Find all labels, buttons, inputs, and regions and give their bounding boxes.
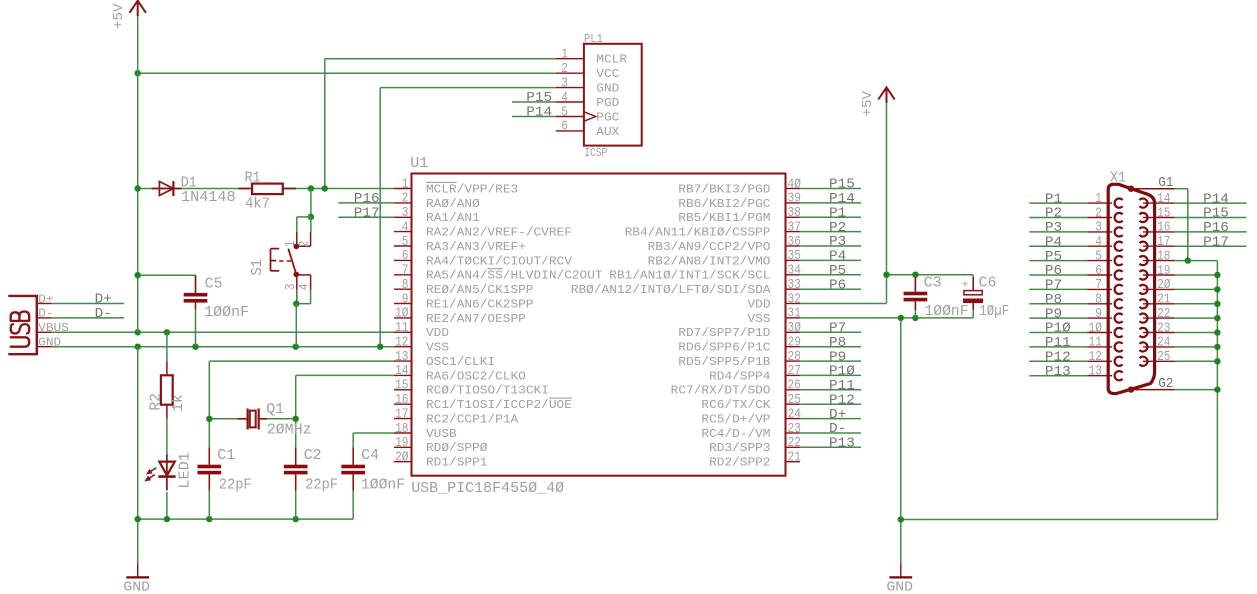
svg-text:9: 9: [402, 292, 409, 307]
svg-text:3: 3: [402, 206, 409, 221]
svg-text:37: 37: [788, 220, 801, 235]
svg-text:2: 2: [1095, 206, 1102, 221]
svg-text:2: 2: [561, 62, 568, 77]
svg-text:26: 26: [788, 379, 801, 394]
svg-text:R2: R2: [148, 393, 165, 411]
svg-text:22: 22: [1157, 307, 1170, 322]
svg-text:2Ø: 2Ø: [1157, 278, 1170, 293]
svg-text:RC6/TX/CK: RC6/TX/CK: [701, 399, 770, 412]
svg-text:12: 12: [395, 336, 408, 351]
svg-text:R1: R1: [245, 169, 261, 186]
svg-text:7: 7: [1095, 278, 1102, 293]
svg-text:VBUS: VBUS: [38, 322, 69, 335]
svg-text:1: 1: [561, 48, 568, 63]
svg-text:21: 21: [1157, 293, 1170, 308]
svg-text:5: 5: [1095, 249, 1102, 264]
svg-text:25: 25: [1157, 350, 1170, 365]
svg-text:33: 33: [788, 278, 801, 293]
svg-text:GND: GND: [123, 580, 150, 594]
svg-text:4: 4: [402, 220, 409, 235]
svg-text:GND: GND: [38, 337, 61, 350]
svg-text:1ØØnF: 1ØØnF: [361, 477, 405, 494]
svg-text:32: 32: [788, 292, 801, 307]
svg-text:6: 6: [1095, 264, 1102, 279]
svg-text:RC5/D+/VP: RC5/D+/VP: [701, 414, 770, 427]
svg-text:RCØ/TIOSO/T13CKI: RCØ/TIOSO/T13CKI: [426, 385, 549, 398]
svg-text:4: 4: [297, 284, 312, 291]
svg-text:VSS: VSS: [748, 313, 771, 326]
svg-text:RB3/AN9/CCP2/VPO: RB3/AN9/CCP2/VPO: [648, 241, 771, 254]
svg-text:15: 15: [395, 379, 408, 394]
svg-text:C4: C4: [361, 447, 379, 464]
svg-text:9: 9: [1095, 307, 1102, 322]
svg-text:18: 18: [1157, 249, 1170, 264]
svg-text:27: 27: [788, 364, 801, 379]
svg-text:VCC: VCC: [596, 68, 619, 81]
svg-text:RC7/RX/DT/SDO: RC7/RX/DT/SDO: [671, 385, 771, 398]
svg-text:RB1/AN1Ø/INT1/SCK/SCL: RB1/AN1Ø/INT1/SCK/SCL: [609, 270, 770, 283]
svg-text:RAØ/ANØ: RAØ/ANØ: [426, 198, 480, 211]
svg-text:RBØ/AN12/INTØ/LFTØ/SDI/SDA: RBØ/AN12/INTØ/LFTØ/SDI/SDA: [571, 284, 771, 297]
svg-text:16: 16: [1157, 221, 1170, 236]
svg-text:RA5/AN4/SS/HLVDIN/C2OUT: RA5/AN4/SS/HLVDIN/C2OUT: [426, 270, 603, 283]
svg-text:1N4148: 1N4148: [181, 189, 236, 206]
svg-text:RA2/AN2/VREF-/CVREF: RA2/AN2/VREF-/CVREF: [426, 227, 572, 240]
svg-text:P14: P14: [526, 105, 552, 121]
svg-text:RB4/AN11/KBIØ/CSSPP: RB4/AN11/KBIØ/CSSPP: [625, 227, 771, 240]
svg-text:RD4/SPP4: RD4/SPP4: [709, 370, 770, 383]
svg-text:1: 1: [1095, 192, 1102, 207]
svg-text:1: 1: [402, 177, 409, 192]
svg-text:OSC1/CLKI: OSC1/CLKI: [426, 356, 495, 369]
svg-text:RD7/SPP7/P1D: RD7/SPP7/P1D: [678, 327, 770, 340]
svg-text:4Ø: 4Ø: [788, 177, 801, 192]
svg-text:C2: C2: [304, 447, 322, 464]
svg-text:P13: P13: [829, 436, 855, 452]
svg-text:D+: D+: [38, 293, 53, 306]
svg-text:VDD: VDD: [426, 327, 449, 340]
svg-text:35: 35: [788, 249, 801, 264]
svg-text:5: 5: [402, 235, 409, 250]
svg-text:1ØµF: 1ØµF: [979, 303, 1009, 320]
svg-text:RB2/AN8/INT2/VMO: RB2/AN8/INT2/VMO: [648, 255, 771, 268]
svg-text:11: 11: [395, 321, 408, 336]
svg-text:LED1: LED1: [176, 452, 193, 488]
svg-text:RDØ/SPPØ: RDØ/SPPØ: [426, 442, 487, 455]
svg-text:ICSP: ICSP: [584, 147, 607, 160]
svg-text:3: 3: [561, 76, 568, 91]
svg-text:RB6/KBI2/PGC: RB6/KBI2/PGC: [678, 198, 770, 211]
svg-text:17: 17: [1157, 235, 1170, 250]
svg-text:P17: P17: [354, 206, 380, 222]
svg-text:28: 28: [788, 350, 801, 365]
svg-text:24: 24: [1157, 336, 1170, 351]
svg-text:36: 36: [788, 235, 801, 250]
svg-text:17: 17: [395, 407, 408, 422]
svg-text:U1: U1: [410, 155, 428, 172]
svg-text:RA3/AN3/VREF+: RA3/AN3/VREF+: [426, 241, 526, 254]
svg-text:1k: 1k: [170, 394, 187, 412]
svg-text:AUX: AUX: [596, 126, 619, 139]
svg-text:C3: C3: [924, 275, 942, 292]
svg-text:1Ø: 1Ø: [1089, 321, 1102, 336]
svg-text:19: 19: [1157, 264, 1170, 279]
svg-text:29: 29: [788, 336, 801, 351]
svg-text:11: 11: [1089, 336, 1102, 351]
svg-text:4: 4: [1095, 235, 1102, 250]
svg-text:39: 39: [788, 192, 801, 207]
svg-text:RD3/SPP3: RD3/SPP3: [709, 442, 770, 455]
svg-text:18: 18: [395, 422, 408, 437]
svg-text:PGD: PGD: [596, 97, 619, 110]
svg-text:14: 14: [1157, 192, 1170, 207]
svg-text:5: 5: [561, 105, 568, 120]
svg-text:8: 8: [1095, 293, 1102, 308]
svg-text:RC4/D-/VM: RC4/D-/VM: [701, 428, 770, 441]
svg-text:C1: C1: [217, 447, 235, 464]
svg-text:14: 14: [395, 364, 408, 379]
svg-text:RD5/SPP5/P1B: RD5/SPP5/P1B: [678, 356, 770, 369]
svg-text:GND: GND: [596, 83, 619, 96]
svg-text:P6: P6: [829, 277, 846, 293]
svg-text:P17: P17: [1203, 234, 1229, 250]
svg-text:3: 3: [1095, 221, 1102, 236]
svg-text:RB5/KBI1/PGM: RB5/KBI1/PGM: [678, 212, 770, 225]
svg-text:2Ø: 2Ø: [395, 451, 408, 466]
svg-text:13: 13: [395, 350, 408, 365]
svg-text:22: 22: [788, 436, 801, 451]
svg-text:34: 34: [788, 264, 801, 279]
svg-text:6: 6: [402, 249, 409, 264]
svg-text:23: 23: [788, 422, 801, 437]
svg-text:RA4/TØCKI/CIOUT/RCV: RA4/TØCKI/CIOUT/RCV: [426, 255, 572, 268]
svg-text:MCLR: MCLR: [596, 54, 627, 67]
svg-text:8: 8: [402, 278, 409, 293]
svg-text:RA1/AN1: RA1/AN1: [426, 212, 480, 225]
svg-text:VSS: VSS: [426, 342, 449, 355]
svg-text:13: 13: [1089, 365, 1102, 380]
svg-text:+5V: +5V: [111, 3, 127, 29]
svg-text:3Ø: 3Ø: [788, 321, 801, 336]
svg-text:RD1/SPP1: RD1/SPP1: [426, 457, 487, 470]
svg-text:23: 23: [1157, 321, 1170, 336]
svg-text:1Ø: 1Ø: [395, 307, 408, 322]
svg-text:1ØØnF: 1ØØnF: [925, 303, 969, 320]
svg-text:12: 12: [1089, 350, 1102, 365]
svg-text:RC1/T1OSI/ICCP2/UOE: RC1/T1OSI/ICCP2/UOE: [426, 399, 572, 412]
svg-text:2: 2: [402, 192, 409, 207]
svg-text:15: 15: [1157, 206, 1170, 221]
svg-text:RC2/CCP1/P1A: RC2/CCP1/P1A: [426, 414, 518, 427]
svg-text:X1: X1: [1110, 169, 1126, 186]
svg-text:RE2/AN7/OESPP: RE2/AN7/OESPP: [426, 313, 526, 326]
svg-text:2ØMHz: 2ØMHz: [267, 422, 312, 439]
svg-text:USB_PIC18F455Ø_4Ø: USB_PIC18F455Ø_4Ø: [411, 480, 564, 497]
svg-text:RD2/SPP2: RD2/SPP2: [709, 457, 770, 470]
svg-text:2: 2: [297, 241, 312, 248]
svg-text:MCLR/VPP/RE3: MCLR/VPP/RE3: [426, 183, 518, 196]
svg-text:24: 24: [788, 407, 801, 422]
svg-text:REØ/AN5/CK1SPP: REØ/AN5/CK1SPP: [426, 284, 534, 297]
svg-text:6: 6: [561, 120, 568, 135]
svg-text:C5: C5: [205, 276, 223, 293]
svg-text:RE1/AN6/CK2SPP: RE1/AN6/CK2SPP: [426, 298, 534, 311]
svg-text:+: +: [962, 280, 969, 292]
svg-text:16: 16: [395, 393, 408, 408]
svg-text:S1: S1: [249, 259, 266, 276]
svg-text:RD6/SPP6/P1C: RD6/SPP6/P1C: [678, 342, 770, 355]
svg-text:22pF: 22pF: [305, 477, 338, 494]
svg-text:PGC: PGC: [596, 111, 619, 124]
svg-text:RB7/BKI3/PGD: RB7/BKI3/PGD: [678, 183, 770, 196]
svg-text:PL1: PL1: [584, 33, 603, 46]
svg-text:31: 31: [788, 307, 801, 322]
svg-text:G1: G1: [1158, 175, 1173, 191]
svg-text:+5V: +5V: [860, 90, 876, 116]
svg-text:VDD: VDD: [748, 298, 771, 311]
svg-text:P13: P13: [1045, 364, 1071, 380]
svg-text:D-: D-: [38, 308, 53, 321]
svg-text:VUSB: VUSB: [426, 428, 457, 441]
svg-text:D-: D-: [95, 306, 112, 322]
svg-text:19: 19: [395, 436, 408, 451]
svg-text:G2: G2: [1158, 376, 1173, 392]
svg-text:25: 25: [788, 393, 801, 408]
svg-text:1ØØnF: 1ØØnF: [204, 304, 249, 321]
svg-text:4: 4: [561, 91, 568, 106]
svg-text:C6: C6: [979, 275, 997, 292]
svg-text:Q1: Q1: [266, 401, 284, 418]
svg-text:4k7: 4k7: [245, 196, 270, 213]
svg-text:21: 21: [788, 451, 801, 466]
svg-text:GND: GND: [886, 580, 913, 594]
svg-text:38: 38: [788, 206, 801, 221]
svg-text:RA6/OSC2/CLKO: RA6/OSC2/CLKO: [426, 370, 526, 383]
svg-text:22pF: 22pF: [219, 477, 252, 494]
svg-text:7: 7: [402, 264, 409, 279]
